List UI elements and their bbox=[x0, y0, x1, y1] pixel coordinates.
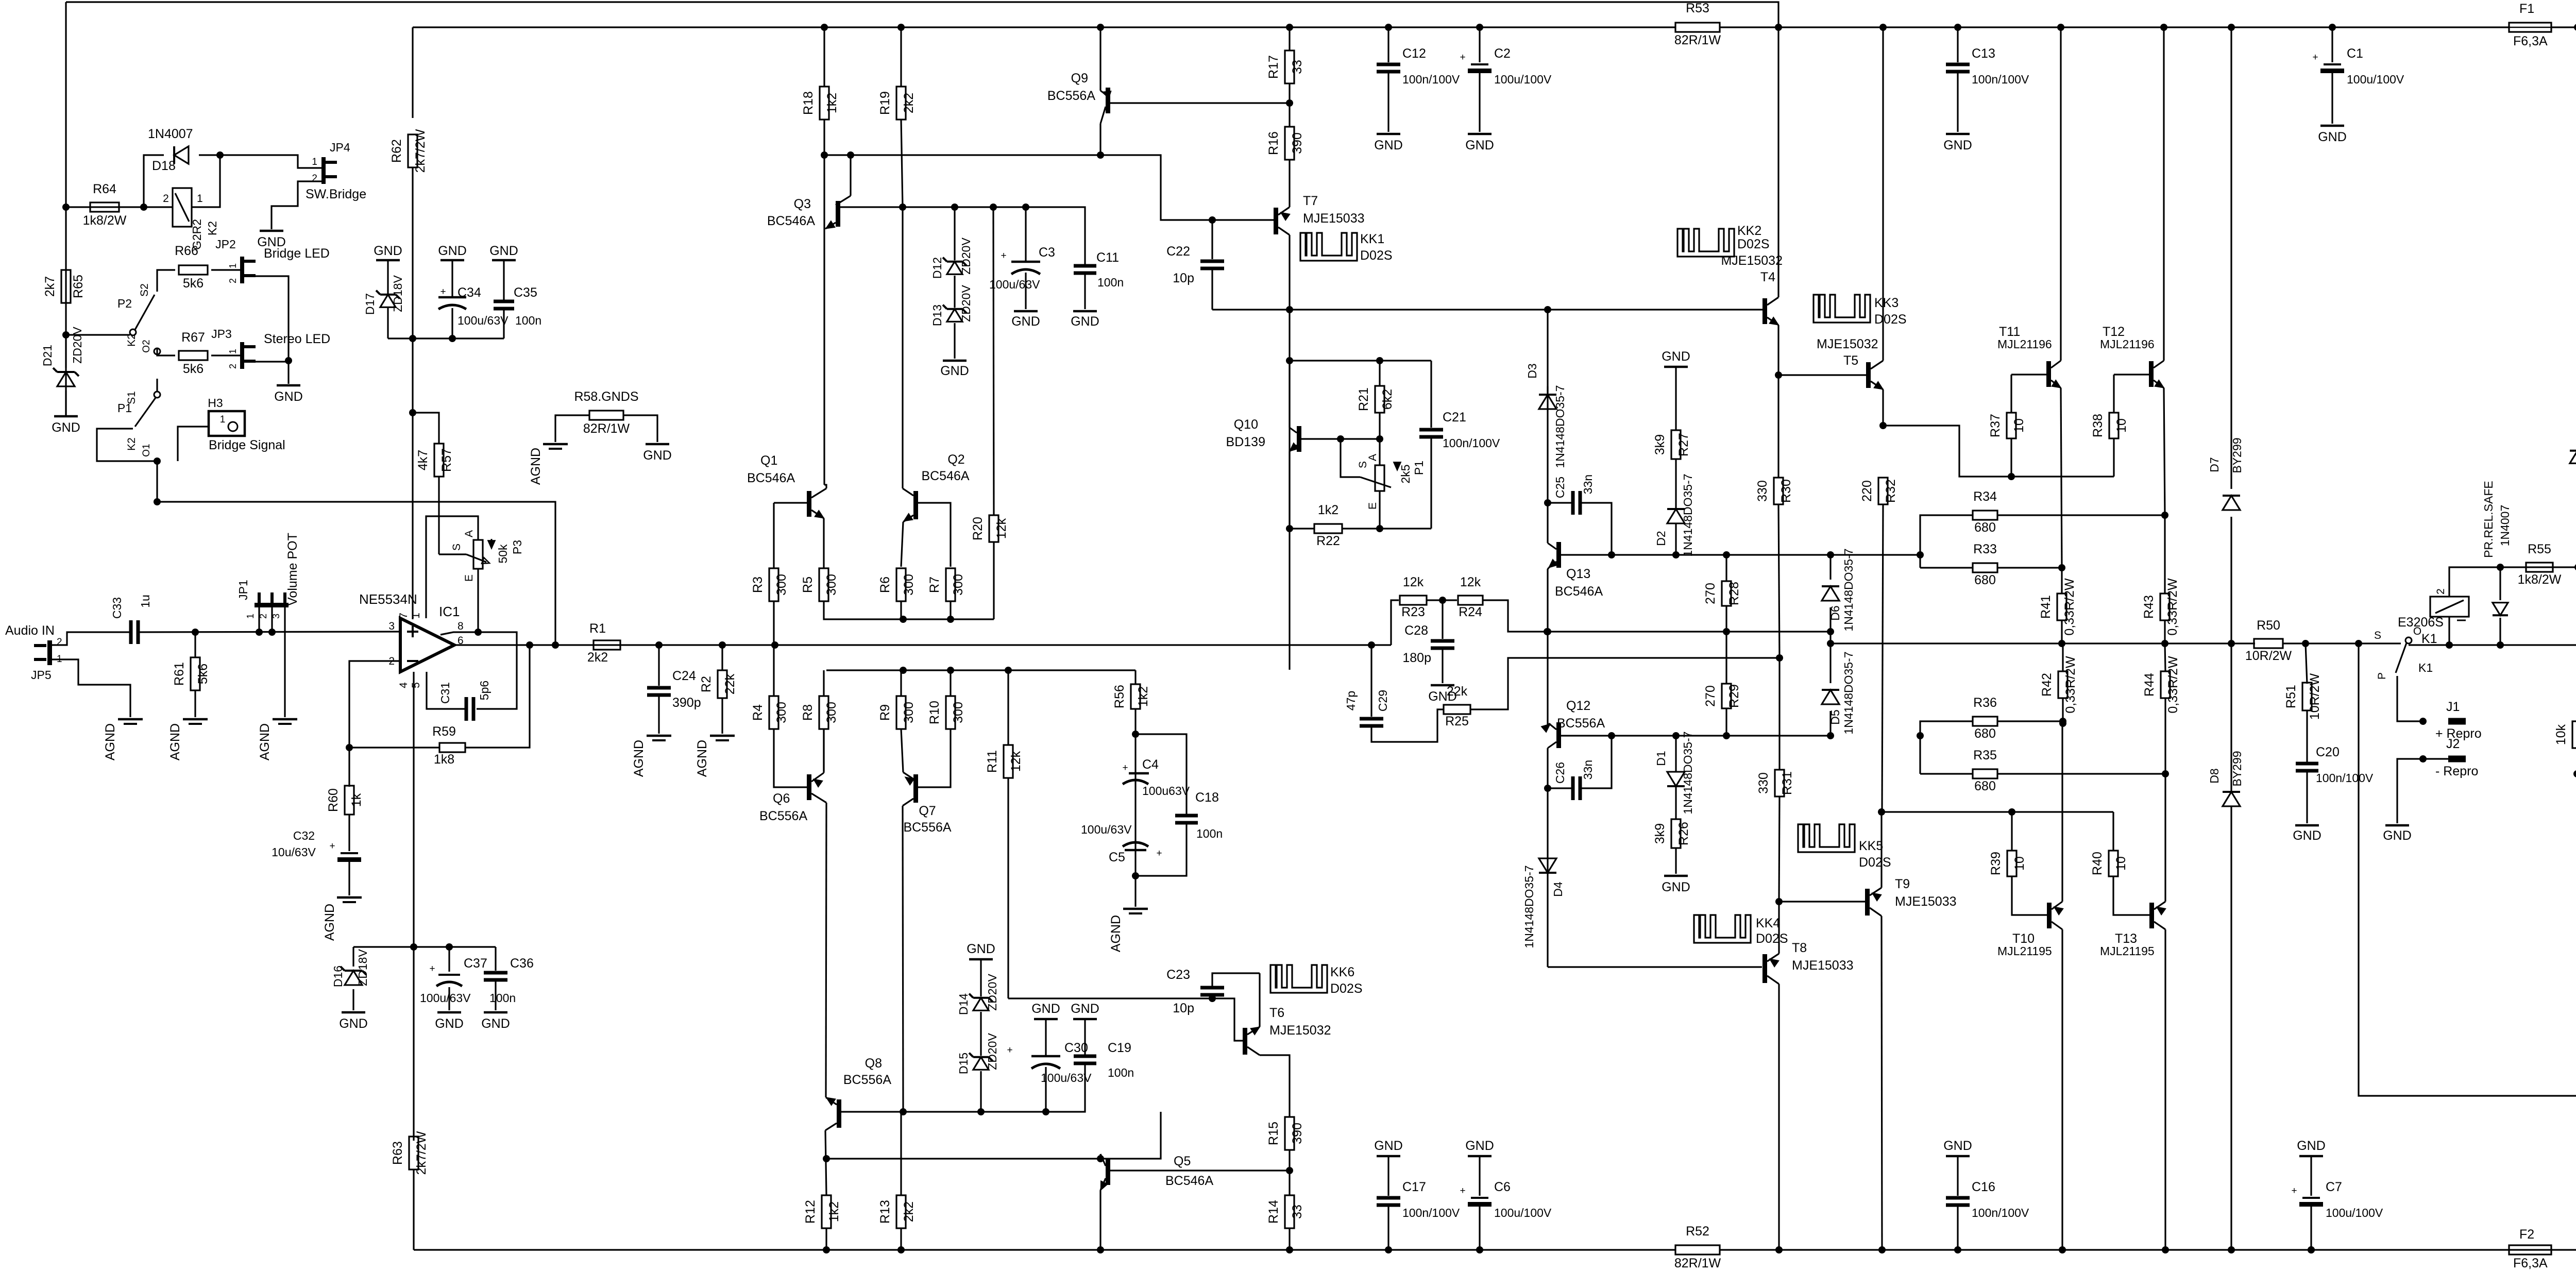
svg-text:300: 300 bbox=[951, 702, 965, 723]
svg-text:A: A bbox=[463, 530, 475, 537]
wire T4 emitter to T5 base bbox=[1778, 374, 1866, 376]
svg-text:GND: GND bbox=[1465, 138, 1494, 152]
svg-text:R33: R33 bbox=[1973, 542, 1997, 556]
svg-text:PR.REL.SAFE: PR.REL.SAFE bbox=[2482, 481, 2495, 558]
svg-text:300: 300 bbox=[774, 702, 789, 723]
wire JP1 pins bbox=[258, 607, 260, 632]
svg-text:R13: R13 bbox=[878, 1200, 892, 1224]
svg-text:100u/63V: 100u/63V bbox=[457, 314, 509, 327]
resistor R37 bbox=[2010, 375, 2012, 413]
resistor R35 bbox=[1973, 769, 1997, 778]
pad J2 -Repro bbox=[2448, 756, 2466, 762]
svg-text:BC546A: BC546A bbox=[747, 471, 795, 485]
svg-text:10: 10 bbox=[2114, 418, 2129, 433]
resistor R52 bbox=[1675, 1245, 1720, 1255]
svg-text:KK3: KK3 bbox=[1874, 296, 1899, 310]
ground GND bbox=[260, 230, 283, 232]
svg-text:12k: 12k bbox=[1460, 575, 1481, 589]
svg-text:47p: 47p bbox=[1344, 691, 1358, 710]
svg-text:+: + bbox=[1001, 250, 1006, 261]
wire -Ucc bottom rail bbox=[414, 1249, 1675, 1250]
svg-text:3k9: 3k9 bbox=[1653, 434, 1667, 455]
svg-text:10p: 10p bbox=[1173, 1001, 1194, 1015]
svg-text:100u/63V: 100u/63V bbox=[989, 278, 1040, 291]
svg-text:S: S bbox=[2374, 630, 2381, 641]
svg-text:82R/1W: 82R/1W bbox=[1674, 1256, 1721, 1270]
svg-text:R29: R29 bbox=[1727, 684, 1741, 708]
capacitor C1 bbox=[2331, 27, 2333, 62]
zener diode D13 ZD20V bbox=[954, 276, 955, 308]
svg-text:1k2: 1k2 bbox=[1318, 503, 1338, 517]
svg-text:Bridge Signal: Bridge Signal bbox=[209, 438, 285, 452]
svg-text:R66: R66 bbox=[175, 244, 198, 258]
svg-text:D02S: D02S bbox=[1737, 237, 1770, 251]
wire JP4 pin2 to GND bbox=[272, 181, 321, 229]
svg-text:NE5534N: NE5534N bbox=[359, 591, 417, 607]
svg-text:R36: R36 bbox=[1973, 696, 1997, 710]
svg-text:10k: 10k bbox=[2554, 724, 2568, 745]
svg-text:C16: C16 bbox=[1972, 1180, 1995, 1194]
svg-text:D21: D21 bbox=[41, 345, 54, 366]
svg-text:100n: 100n bbox=[1196, 827, 1223, 840]
wire JP3 pin2 to GND bbox=[285, 357, 292, 364]
svg-text:1k2: 1k2 bbox=[1136, 686, 1150, 707]
wire R13 column bbox=[900, 1112, 902, 1195]
resistor R30 bbox=[1777, 375, 1779, 478]
ground GND bbox=[54, 415, 78, 418]
wire IC1 pin1 balance loop bbox=[426, 516, 478, 618]
svg-text:D02S: D02S bbox=[1330, 981, 1363, 996]
svg-text:T5: T5 bbox=[1843, 353, 1858, 368]
diode D8 BY299 bbox=[2230, 643, 2232, 792]
svg-text:5: 5 bbox=[410, 682, 422, 688]
svg-text:100u/63V: 100u/63V bbox=[1081, 823, 1132, 836]
svg-text:D02S: D02S bbox=[1859, 855, 1891, 870]
svg-text:GND: GND bbox=[2293, 828, 2321, 843]
svg-text:5p6: 5p6 bbox=[478, 681, 491, 700]
svg-text:R39: R39 bbox=[1989, 852, 2003, 875]
svg-text:K1: K1 bbox=[2418, 661, 2433, 674]
svg-text:Q9: Q9 bbox=[1071, 71, 1088, 86]
pad J1 +Repro bbox=[2448, 718, 2466, 725]
svg-text:C22: C22 bbox=[1166, 244, 1190, 259]
svg-text:+: + bbox=[1460, 1185, 1465, 1196]
svg-text:MJE15032: MJE15032 bbox=[1721, 253, 1783, 268]
svg-text:D14: D14 bbox=[957, 993, 970, 1015]
svg-text:R5: R5 bbox=[801, 577, 815, 593]
svg-text:AGND: AGND bbox=[1109, 915, 1123, 952]
ground GND bbox=[2295, 824, 2319, 827]
resistor R9 bbox=[900, 670, 902, 696]
svg-text:5k6: 5k6 bbox=[183, 276, 204, 291]
svg-text:R14: R14 bbox=[1266, 1200, 1281, 1224]
svg-text:C34: C34 bbox=[457, 285, 481, 300]
diode PR.REL.SAFE 1N4007 bbox=[2499, 567, 2501, 600]
svg-text:R63: R63 bbox=[391, 1141, 405, 1165]
svg-text:D12: D12 bbox=[930, 257, 944, 279]
svg-text:Stereo LED: Stereo LED bbox=[264, 332, 330, 346]
resistor R43 bbox=[2164, 515, 2165, 594]
svg-text:GND: GND bbox=[339, 1016, 368, 1031]
diode D3 bbox=[1547, 386, 1548, 393]
resistor R64 bbox=[66, 206, 173, 208]
potentiometer P3 50k bbox=[473, 540, 483, 569]
svg-text:R7: R7 bbox=[927, 577, 942, 593]
resistor R4 bbox=[773, 645, 774, 696]
svg-text:GND: GND bbox=[1031, 1002, 1060, 1016]
svg-text:1N4148DO35-7: 1N4148DO35-7 bbox=[1842, 548, 1855, 631]
svg-text:C6: C6 bbox=[1494, 1180, 1511, 1194]
wire Q5 collector row bbox=[826, 1112, 1161, 1159]
resistor R8 bbox=[823, 670, 824, 696]
svg-text:C29: C29 bbox=[1376, 690, 1389, 711]
svg-text:D17: D17 bbox=[363, 293, 377, 315]
resistor R29 bbox=[1725, 632, 1727, 684]
svg-text:GND: GND bbox=[940, 364, 969, 378]
resistor R38 bbox=[2113, 375, 2114, 413]
svg-text:300: 300 bbox=[902, 702, 916, 723]
resistor R62 bbox=[412, 27, 413, 118]
svg-text:D16: D16 bbox=[331, 965, 345, 987]
svg-text:T7: T7 bbox=[1303, 194, 1318, 208]
svg-text:R51: R51 bbox=[2284, 685, 2298, 708]
svg-text:12k: 12k bbox=[994, 518, 1009, 539]
zener diode D15 ZD20V bbox=[980, 1012, 981, 1056]
ground GND bbox=[1946, 133, 1970, 135]
resistor R53 bbox=[1675, 23, 1720, 32]
svg-text:R42: R42 bbox=[2040, 673, 2054, 697]
svg-text:R28: R28 bbox=[1727, 582, 1741, 605]
svg-text:J1: J1 bbox=[2446, 700, 2460, 714]
resistor R17 bbox=[1289, 27, 1290, 50]
svg-text:ZD20V: ZD20V bbox=[959, 285, 973, 322]
wire T5 emitter jog to base resistors bbox=[1883, 426, 2114, 477]
svg-text:R24: R24 bbox=[1459, 605, 1482, 619]
wire JP2 to GND column bbox=[256, 276, 289, 361]
resistor R12 bbox=[822, 1195, 831, 1228]
wire feedback R59/C31 junction bbox=[465, 645, 530, 748]
svg-text:F2: F2 bbox=[2519, 1227, 2534, 1242]
svg-text:82R/1W: 82R/1W bbox=[583, 421, 630, 436]
capacitor C18 bbox=[1136, 734, 1187, 816]
svg-text:2k5: 2k5 bbox=[1399, 464, 1412, 483]
ground AGND bbox=[273, 718, 297, 721]
svg-text:R52: R52 bbox=[1686, 1224, 1709, 1239]
resistor R25 bbox=[1444, 705, 1470, 714]
svg-text:GND: GND bbox=[2318, 130, 2347, 144]
svg-text:GND: GND bbox=[643, 448, 672, 463]
svg-text:R18: R18 bbox=[801, 91, 816, 115]
svg-text:1N4148DO35-7: 1N4148DO35-7 bbox=[1681, 731, 1694, 814]
svg-text:100u63V: 100u63V bbox=[1142, 784, 1190, 798]
svg-text:R37: R37 bbox=[1988, 414, 2003, 437]
svg-text:C17: C17 bbox=[1402, 1180, 1426, 1194]
svg-text:1N4148DO35-7: 1N4148DO35-7 bbox=[1553, 385, 1567, 468]
svg-text:1k2: 1k2 bbox=[825, 93, 839, 113]
svg-text:A: A bbox=[1367, 454, 1379, 461]
svg-text:GND: GND bbox=[481, 1016, 510, 1031]
svg-text:P3: P3 bbox=[511, 540, 524, 554]
svg-text:BD139: BD139 bbox=[1226, 435, 1265, 449]
connector JP3 Stereo LED bbox=[240, 342, 244, 369]
wire +Ucc top rail bbox=[413, 26, 1675, 28]
svg-text:GND: GND bbox=[438, 244, 467, 258]
ground GND bbox=[1664, 875, 1688, 877]
svg-text:O1: O1 bbox=[141, 444, 152, 456]
resistor R42 bbox=[2062, 643, 2063, 671]
capacitor C31 bbox=[465, 697, 468, 721]
svg-text:R56: R56 bbox=[1112, 685, 1127, 708]
svg-text:+: + bbox=[1156, 848, 1162, 859]
svg-text:GND: GND bbox=[374, 244, 402, 258]
svg-text:ZD18V: ZD18V bbox=[356, 949, 369, 986]
zener diode D16 ZD18V bbox=[352, 947, 354, 967]
svg-text:ZD20V: ZD20V bbox=[986, 974, 999, 1011]
svg-text:+: + bbox=[329, 841, 335, 852]
wire output row continues under relay bbox=[2409, 644, 2576, 646]
relay K1 E3206S bbox=[2430, 597, 2469, 617]
diode D18 bbox=[144, 155, 164, 207]
wire Q10 emitter column to Q13 bbox=[1289, 529, 1290, 670]
svg-text:C11: C11 bbox=[1096, 250, 1119, 265]
resistor R58.GNDS bbox=[589, 411, 623, 420]
svg-text:1: 1 bbox=[197, 193, 203, 205]
wire T8 emitter to T9 base bbox=[1779, 901, 1865, 902]
svg-text:KK2: KK2 bbox=[1737, 224, 1761, 238]
svg-text:D1: D1 bbox=[1654, 751, 1668, 766]
capacitor C29 bbox=[1370, 645, 1372, 717]
svg-text:+: + bbox=[1007, 1045, 1012, 1056]
svg-text:R30: R30 bbox=[1779, 479, 1793, 503]
fuse F2 bbox=[2509, 1245, 2551, 1255]
resistor R26 bbox=[1671, 819, 1681, 848]
resistor R57 bbox=[413, 413, 439, 444]
resistor R61 bbox=[194, 632, 196, 657]
svg-text:C4: C4 bbox=[1142, 757, 1159, 772]
resistor R51 bbox=[2306, 643, 2307, 684]
svg-text:MJL21195: MJL21195 bbox=[2100, 944, 2155, 958]
svg-text:K2: K2 bbox=[126, 333, 138, 347]
svg-text:R57: R57 bbox=[439, 448, 454, 472]
zener diode D21 ZD20V bbox=[65, 335, 66, 368]
svg-text:180p: 180p bbox=[1402, 651, 1431, 665]
svg-text:10: 10 bbox=[2114, 856, 2128, 871]
connector JP1 Volume POT bbox=[255, 603, 289, 607]
svg-text:MJE15033: MJE15033 bbox=[1303, 211, 1365, 226]
potentiometer P1 2k5 bbox=[1341, 439, 1380, 465]
svg-text:R61: R61 bbox=[172, 662, 187, 686]
svg-text:D7: D7 bbox=[2208, 457, 2221, 472]
svg-text:100u/100V: 100u/100V bbox=[2326, 1206, 2383, 1219]
svg-text:3: 3 bbox=[388, 620, 395, 632]
svg-text:C5: C5 bbox=[1109, 850, 1125, 865]
svg-text:SW.Bridge: SW.Bridge bbox=[306, 187, 366, 201]
ground GND bbox=[2320, 125, 2344, 127]
svg-text:680: 680 bbox=[1974, 520, 1996, 535]
svg-text:10R/2W: 10R/2W bbox=[2308, 673, 2322, 720]
capacitor C12 bbox=[1387, 27, 1389, 62]
svg-text:R1: R1 bbox=[589, 621, 606, 636]
svg-text:C36: C36 bbox=[510, 956, 534, 971]
resistor R14 bbox=[1285, 1195, 1294, 1228]
wire JP5 pin2 to C33 bbox=[52, 632, 131, 645]
svg-text:100n/100V: 100n/100V bbox=[1972, 73, 2029, 86]
svg-text:JP4: JP4 bbox=[330, 141, 350, 154]
svg-text:R26: R26 bbox=[1676, 822, 1691, 845]
svg-text:1N4148DO35-7: 1N4148DO35-7 bbox=[1842, 651, 1855, 734]
svg-text:K2: K2 bbox=[206, 221, 219, 235]
svg-text:JP1: JP1 bbox=[236, 580, 250, 600]
svg-text:MJE15033: MJE15033 bbox=[1792, 958, 1854, 973]
svg-text:GND: GND bbox=[1374, 138, 1403, 152]
resistor R22 bbox=[1376, 525, 1383, 532]
ground AGND bbox=[183, 718, 208, 721]
svg-text:390p: 390p bbox=[672, 696, 701, 710]
svg-text:100u/100V: 100u/100V bbox=[1494, 73, 1552, 86]
svg-text:R53: R53 bbox=[1686, 1, 1709, 15]
svg-text:1k8/2W: 1k8/2W bbox=[83, 213, 127, 228]
svg-text:300: 300 bbox=[951, 574, 965, 596]
svg-text:Q12: Q12 bbox=[1566, 699, 1590, 713]
capacitor C5 bbox=[1123, 842, 1148, 846]
wire LTP2 top row bbox=[826, 669, 1136, 671]
svg-text:33: 33 bbox=[1290, 1205, 1304, 1219]
svg-text:JP5: JP5 bbox=[31, 668, 52, 682]
svg-text:C20: C20 bbox=[2316, 745, 2340, 759]
svg-text:0,33R/2W: 0,33R/2W bbox=[2165, 578, 2180, 636]
resistor R23 bbox=[1400, 596, 1427, 605]
svg-text:D02S: D02S bbox=[1756, 931, 1788, 946]
svg-text:O2: O2 bbox=[141, 340, 152, 352]
svg-text:MJE15032: MJE15032 bbox=[1269, 1023, 1331, 1038]
svg-text:C19: C19 bbox=[1108, 1041, 1131, 1055]
svg-text:50k: 50k bbox=[496, 544, 510, 564]
svg-text:Q8: Q8 bbox=[865, 1056, 882, 1071]
svg-text:3k9: 3k9 bbox=[1653, 823, 1667, 844]
svg-text:Q1: Q1 bbox=[760, 453, 777, 468]
switch S2/P2 K2 bbox=[62, 331, 70, 338]
svg-text:D2: D2 bbox=[1654, 531, 1668, 546]
svg-text:1: 1 bbox=[228, 263, 238, 268]
svg-text:C25: C25 bbox=[1553, 477, 1567, 498]
ground GND bbox=[1468, 133, 1492, 135]
svg-text:JP2: JP2 bbox=[215, 238, 236, 251]
wire T9 emitter row to lower base resistors bbox=[1882, 811, 2113, 812]
svg-text:BC556A: BC556A bbox=[843, 1073, 891, 1087]
capacitor C20 bbox=[2296, 762, 2318, 766]
svg-text:KK6: KK6 bbox=[1330, 965, 1354, 979]
resistor R59 bbox=[439, 743, 465, 752]
svg-text:GND: GND bbox=[1662, 880, 1690, 894]
svg-text:+: + bbox=[429, 963, 435, 974]
svg-text:4k7: 4k7 bbox=[416, 450, 430, 470]
resistor R67 bbox=[179, 351, 208, 360]
wire relay supply row R55 bbox=[2449, 567, 2576, 597]
svg-text:C7: C7 bbox=[2326, 1180, 2342, 1194]
ground GND bbox=[484, 1011, 507, 1014]
svg-text:5k6: 5k6 bbox=[196, 664, 210, 684]
svg-text:R22: R22 bbox=[1316, 534, 1340, 548]
svg-text:+: + bbox=[2312, 52, 2318, 63]
svg-text:ZD18V: ZD18V bbox=[391, 275, 404, 312]
svg-text:BC546A: BC546A bbox=[1165, 1174, 1213, 1188]
svg-text:R10: R10 bbox=[927, 701, 942, 724]
svg-text:AGND: AGND bbox=[323, 904, 337, 941]
resistor R21 bbox=[1379, 361, 1380, 386]
wire Q8 base bias row bbox=[841, 1063, 1085, 1112]
capacitor C22 bbox=[1211, 220, 1213, 259]
svg-text:C33: C33 bbox=[110, 597, 124, 619]
resistor R1 bbox=[594, 640, 620, 650]
heatsink KK5 bbox=[1798, 824, 1855, 852]
svg-text:680: 680 bbox=[1974, 726, 1996, 741]
wire aux supply row bbox=[353, 946, 496, 947]
svg-text:R40: R40 bbox=[2090, 852, 2105, 875]
resistor R2 bbox=[721, 645, 723, 670]
resistor R40 bbox=[2112, 812, 2114, 851]
svg-text:C12: C12 bbox=[1402, 46, 1426, 61]
svg-text:5k6: 5k6 bbox=[183, 362, 204, 376]
ground GND bbox=[1014, 310, 1038, 313]
wire output row bbox=[1831, 642, 2255, 644]
ground GND bbox=[943, 360, 967, 362]
capacitor C2 bbox=[1479, 27, 1480, 62]
svg-text:P2: P2 bbox=[117, 297, 132, 310]
svg-text:10u/63V: 10u/63V bbox=[272, 845, 316, 859]
svg-text:680: 680 bbox=[1974, 779, 1996, 793]
svg-text:GND: GND bbox=[1662, 349, 1690, 364]
svg-text:C23: C23 bbox=[1166, 968, 1190, 982]
svg-text:D4: D4 bbox=[1551, 882, 1565, 897]
svg-text:MJL21196: MJL21196 bbox=[2100, 337, 2155, 351]
ground wire R63 column joins rail bbox=[2308, 1246, 2315, 1253]
svg-text:D13: D13 bbox=[930, 304, 944, 326]
svg-text:T8: T8 bbox=[1792, 941, 1807, 955]
resistor R44 bbox=[2165, 643, 2165, 671]
resistor R34 bbox=[1920, 515, 1973, 568]
svg-text:Q13: Q13 bbox=[1566, 567, 1590, 581]
svg-text:T4: T4 bbox=[1760, 270, 1775, 284]
svg-text:12k: 12k bbox=[1009, 751, 1023, 772]
svg-text:R27: R27 bbox=[1676, 433, 1691, 456]
svg-text:270: 270 bbox=[1703, 685, 1718, 707]
svg-text:C1: C1 bbox=[2347, 46, 2363, 61]
svg-text:100n/100V: 100n/100V bbox=[1402, 73, 1460, 86]
resistor R15 bbox=[1285, 1117, 1294, 1150]
svg-text:C31: C31 bbox=[438, 682, 452, 704]
svg-text:C35: C35 bbox=[514, 285, 537, 300]
svg-text:100u/63V: 100u/63V bbox=[420, 991, 471, 1005]
svg-text:2k2: 2k2 bbox=[587, 650, 608, 665]
wire pin8 bbox=[440, 632, 517, 709]
svg-text:C26: C26 bbox=[1553, 762, 1567, 784]
capacitor C23 bbox=[1200, 986, 1224, 990]
svg-text:AGND: AGND bbox=[103, 723, 117, 760]
wire T6 base row bbox=[1008, 998, 1243, 1041]
svg-text:AGND: AGND bbox=[632, 740, 646, 777]
svg-text:KK5: KK5 bbox=[1859, 839, 1883, 853]
resistor R41 bbox=[2061, 568, 2062, 594]
ground AGND bbox=[647, 735, 671, 737]
wire JP5 pin1 to AGND bbox=[52, 659, 130, 717]
svg-text:2k7/2W: 2k7/2W bbox=[413, 129, 428, 173]
svg-text:ZD20V: ZD20V bbox=[71, 327, 84, 364]
svg-text:+: + bbox=[440, 286, 446, 297]
svg-text:E: E bbox=[1367, 502, 1379, 510]
svg-text:390: 390 bbox=[1290, 1123, 1304, 1144]
svg-text:T13: T13 bbox=[2115, 931, 2137, 946]
svg-text:P1: P1 bbox=[117, 401, 132, 415]
